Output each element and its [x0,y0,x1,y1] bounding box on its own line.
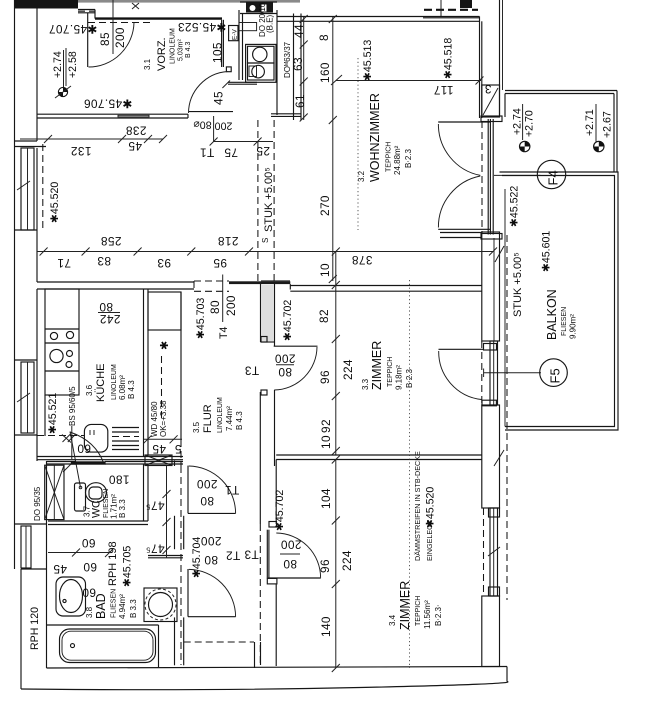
svg-text:3.5: 3.5 [192,421,201,433]
svg-text:3.1: 3.1 [143,58,152,70]
hall door 2 bottom radius [188,616,236,618]
left wall sill lines at vorz bottom [15,140,38,142]
dim 60 fridge [77,442,91,456]
dim row y=251.5 [37,251,493,253]
dim 95 [213,256,227,270]
dim 3 [484,82,491,96]
svg-text:80: 80 [278,365,292,379]
svg-text:75: 75 [224,146,238,160]
F5 window frame [490,341,498,405]
transverse wall black band [229,281,290,284]
svg-text:45: 45 [128,139,142,153]
svg-text:224: 224 [341,359,355,380]
svg-text:T2: T2 [226,549,241,563]
T1 label hall [225,483,240,497]
F5 leader [484,372,541,374]
svg-text:+2.74: +2.74 [512,108,524,135]
T3 tag 80 [278,365,292,379]
svg-text:200: 200 [201,534,222,548]
svg-text:DO 95/35: DO 95/35 [33,486,42,521]
svg-text:180: 180 [109,473,130,487]
top scan band [30,0,300,3]
svg-text:✱45.521: ✱45.521 [47,393,59,434]
vorz right wall upper [221,20,223,67]
svg-text:10: 10 [319,435,333,449]
toilet tank [75,483,86,511]
svg-text:RPH 120: RPH 120 [29,607,41,650]
T3 upper door leaf [274,345,318,347]
Z34 window frame [490,508,498,596]
svg-text:45: 45 [212,91,226,105]
dim 45 hatch [152,442,166,456]
svg-text:270: 270 [318,195,332,216]
T4 passage dashed lintel [194,280,229,282]
svg-text:B 4.3: B 4.3 [127,380,136,399]
svg-text:FLIESEN: FLIESEN [561,307,568,336]
dim 45 [128,139,142,153]
svg-text:61: 61 [293,94,307,108]
svg-text:✱: ✱ [159,341,171,350]
z33/z34 divider wall [276,454,482,456]
svg-text:224: 224 [340,550,354,571]
svg-text:T3: T3 [244,548,259,562]
svg-text:4.94m²: 4.94m² [118,594,127,619]
tick on W1 [17,181,30,190]
svg-text:3: 3 [484,82,491,96]
svg-text:VORZ.: VORZ. [156,37,168,71]
small box in shaft [239,23,257,31]
svg-text:160: 160 [318,62,332,83]
top wall to the right [277,16,480,18]
vorz bottom wall [37,113,188,115]
bad/wc left inner wall [46,461,48,668]
svg-text:WC: WC [91,500,103,518]
svg-text:B 4.3: B 4.3 [235,411,244,430]
vorz door leaf [189,111,233,113]
hall door 1 arc [189,466,236,513]
T1 dim line [214,141,273,143]
svg-text:71: 71 [57,256,71,270]
daemmstreifen dotted line wohnz [357,58,359,230]
svg-text:S: S [261,238,270,243]
svg-text:LINOLEUM: LINOLEUM [217,397,224,433]
svg-text:BS 95/60/5: BS 95/60/5 [68,386,77,426]
svg-text:24.88m²: 24.88m² [393,145,402,175]
svg-text:✱45.601: ✱45.601 [541,231,553,272]
shaft right wall [276,10,278,115]
svg-text:10: 10 [318,263,332,277]
tub surround [47,624,159,626]
chimney outline [240,1,277,3]
svg-text:93: 93 [157,256,171,270]
z34 door tag 200 [281,538,302,552]
svg-text:80: 80 [283,557,297,571]
vorz bottom wall niche box [118,115,149,117]
svg-text:+2.67: +2.67 [602,111,614,138]
stove-sink unit outer [246,44,276,82]
niche column between wc and hall [148,555,183,557]
survey point balcony 1 [520,141,530,151]
hall door 2 leaf [187,569,189,617]
outer wall left: outer line upper [14,0,16,569]
vorz door arc [189,72,228,114]
svg-text:3.4: 3.4 [388,614,397,626]
right wall pier bottom [482,596,500,667]
balcony door arc 2 [438,176,480,228]
wall stub hall bottom [254,642,256,668]
bathtub [60,629,156,663]
stove-sink unit bottom compartment [248,63,275,80]
svg-text:✱45.703: ✱45.703 [195,298,207,339]
svg-text:60: 60 [77,442,91,456]
dim 180 wc [109,473,130,487]
svg-text:105: 105 [211,42,225,63]
level 45.706 [84,97,133,111]
z34 door arc [276,533,320,578]
wohnzimmer west wall upper [293,14,295,121]
svg-text:T1: T1 [200,146,215,160]
dim 378 [352,253,373,267]
z34 door tag 80 [283,557,297,571]
svg-text:OK=+3.38: OK=+3.38 [159,400,168,437]
bottom-right wall end [506,667,508,682]
svg-text:LINOLEUM: LINOLEUM [170,28,177,64]
kitchen dashed line [37,435,84,437]
hall door 2 arc [189,569,236,616]
level 45.523 [178,20,227,34]
svg-text:✱45.706: ✱45.706 [84,97,133,111]
door tag 80 [193,119,212,131]
svg-text:80: 80 [204,553,218,567]
svg-text:9.90m²: 9.90m² [569,314,578,339]
T3 label lower [244,548,259,562]
svg-text:+2.71: +2.71 [584,109,596,136]
hall door2 tag 80 [204,553,218,567]
svg-text:3.8: 3.8 [85,606,94,618]
z34 door closed panel [266,530,268,579]
svg-text:STUK +5.00⁵: STUK +5.00⁵ [512,252,524,317]
E-V box [229,26,238,41]
svg-text:LINOLEUM: LINOLEUM [111,364,118,400]
vertical dim chain lower [335,460,337,669]
svg-text:WOHNZIMMER: WOHNZIMMER [368,93,382,182]
chimney black band [246,3,273,13]
bottom outer wall inner line [47,667,508,669]
svg-text:✱45.520: ✱45.520 [49,182,61,223]
outer line right top [499,0,501,90]
dim 75 [224,146,238,160]
dim 258 [101,234,122,248]
entry door arc [89,23,135,68]
dim 80/242 fraction [99,300,113,314]
T3 label upper [244,364,259,378]
daemmstreifen dotted line lower [409,280,411,668]
dim 132 [71,144,92,158]
vorz top wall inner line [95,17,222,19]
fridge dim line [71,426,73,459]
svg-text:63: 63 [291,57,305,71]
wohnz/z33 divider wall meets right wall [440,232,482,234]
hall door 1 bottom radius [188,512,236,514]
x-mark at entry closing point [132,3,139,9]
survey point symbol [55,86,71,98]
svg-text:11.56m²: 11.56m² [423,600,432,629]
dim 117 line [336,80,481,82]
svg-text:B 3.3: B 3.3 [118,499,127,518]
wc bottom wall [48,520,148,522]
svg-text:✱45.702: ✱45.702 [282,300,294,341]
transverse wall east part (wohnz/z33) [290,285,482,287]
corridor wall pair below T3 [259,392,261,524]
balcony door leaf 1 [438,121,490,123]
X-box niche [145,455,172,466]
svg-text:242: 242 [100,312,121,326]
F4 leader [494,174,541,176]
z34 west wall upper piece [275,460,277,525]
balcony door arc 1 [438,124,480,175]
entry lintel dashed [88,22,152,24]
svg-text:80⌀: 80⌀ [193,119,212,131]
svg-text:83: 83 [97,254,111,268]
T3 tag 200 [275,352,296,366]
svg-text:B 3.3: B 3.3 [129,599,138,618]
neighbor balcony divider [505,90,617,92]
dim 475 b [145,542,164,556]
svg-text:200: 200 [113,27,127,48]
label T1 [200,146,215,160]
F4 circle [537,160,565,188]
z33 window door leaf [439,348,484,350]
svg-text:+2.58: +2.58 [67,51,79,78]
svg-text:60: 60 [83,560,97,574]
small black block top middle [460,0,472,8]
dim 83 [97,254,111,268]
stove-sink unit top compartment [248,46,275,63]
svg-text:258: 258 [101,234,122,248]
wohnz right wall pier top [499,90,501,117]
svg-text:378: 378 [352,253,373,267]
svg-text:47⁵: 47⁵ [145,542,164,556]
svg-text:92: 92 [319,419,333,433]
dim 25 [256,144,270,158]
svg-text:9.18m²: 9.18m² [395,365,404,390]
dim 238 [126,124,147,138]
dim chain A (x=303.7) [303,17,305,121]
svg-text:200: 200 [275,352,296,366]
svg-text:TEPPICH: TEPPICH [415,596,422,626]
svg-text:B⋅2.3: B⋅2.3 [404,148,413,168]
dim chain B (x=332.8) [332,17,334,282]
right wall pier between balcony door and F5 window [482,232,500,341]
svg-text:KÜCHE: KÜCHE [95,363,107,402]
svg-text:85: 85 [98,32,112,46]
svg-text:60: 60 [82,536,96,550]
hatch dim line [144,438,182,440]
svg-text:80: 80 [200,494,214,508]
svg-text:5: 5 [174,442,181,456]
balcony door bottom hinge block [481,234,502,240]
window W1 in left wall [21,148,34,230]
svg-text:200: 200 [197,477,218,491]
svg-text:45: 45 [53,562,67,576]
svg-text:3.3: 3.3 [361,378,370,390]
dim 71 [57,256,71,270]
hall door1 tag 200 [197,477,218,491]
T2 label [226,549,241,563]
svg-text:132: 132 [71,144,92,158]
leader from top [440,0,442,16]
z34 door leaf [268,577,321,579]
tick on Z34 window [488,547,500,556]
T4 fraction line [222,275,224,323]
svg-text:E-V: E-V [232,29,239,41]
door tag 200 [215,120,233,132]
svg-text:✱45.707: ✱45.707 [49,22,98,36]
svg-text:FLIESEN: FLIESEN [111,589,118,618]
balcony door frame lines [487,119,489,235]
svg-text:5.03m²: 5.03m² [178,39,185,61]
dim 475 a [145,499,164,513]
level 45.707 (rot180) [49,22,98,36]
svg-text:7.44m²: 7.44m² [225,406,234,431]
dim line under vorz (y139) [20,138,163,140]
hall bottom dashed [184,641,254,643]
shelf unit lines [112,427,139,429]
STUK corridor dashed strip [257,120,259,281]
svg-text:238: 238 [126,124,147,138]
svg-text:✱45.513: ✱45.513 [362,40,374,81]
svg-text:✱45.520: ✱45.520 [425,487,437,528]
kitchen sink bowls [50,332,57,339]
svg-text:B 4.3: B 4.3 [185,42,192,58]
svg-text:B⋅2.3⋅: B⋅2.3⋅ [434,604,443,626]
transverse wall corner step [289,284,291,289]
svg-text:200: 200 [215,120,233,132]
z33 window door arc [439,351,482,400]
z34 west wall lower piece [275,584,277,666]
svg-text:RPH 198: RPH 198 [107,541,119,586]
bad dims 45/60 [48,552,111,554]
svg-text:45: 45 [152,442,166,456]
svg-text:STUK +5.00⁵: STUK +5.00⁵ [263,167,275,232]
svg-text:3.6: 3.6 [85,384,94,396]
svg-text:WD 45/80: WD 45/80 [150,401,159,437]
svg-text:117: 117 [433,83,453,97]
svg-text:82: 82 [317,309,331,323]
balcony door leaf 2 [438,228,490,230]
shaft X-box wc [45,465,64,519]
outer wall left: outer line lower [20,569,22,689]
entry threshold lower line [78,12,95,14]
svg-text:80: 80 [99,300,113,314]
kitchen stove burners [50,349,63,362]
vertical dim chain upper (x=335.8) [335,252,337,456]
svg-text:✱45.705: ✱45.705 [122,546,134,587]
T1 dim vertical leader [213,116,215,142]
balcony inner floor edge [504,189,506,427]
svg-text:TEPPICH: TEPPICH [387,357,394,387]
svg-text:140: 140 [319,616,333,637]
svg-text:8: 8 [317,34,331,41]
svg-text:(B.E): (B.E) [266,14,275,33]
svg-text:✱45.522: ✱45.522 [509,186,521,227]
svg-text:95: 95 [213,256,227,270]
dashed lintel top right [424,9,478,11]
F5 window sill blocks [484,344,497,351]
washing machine [144,588,177,622]
kitchen bottom wall [37,456,183,458]
svg-text:FLUR: FLUR [202,404,214,433]
plaster dashed line [42,144,44,231]
balcony door top hinge block [481,116,502,122]
kitchen counter outline [45,289,79,395]
z34 door lower jamb [267,578,277,584]
entry door leaf [87,13,89,67]
svg-text:DÄMMSTREIFEN IN STB-DECKE: DÄMMSTREIFEN IN STB-DECKE [413,451,422,561]
svg-text:✱45.702: ✱45.702 [274,490,286,531]
hall door1 tag 80 [200,494,214,508]
kitchen right wall [143,289,145,457]
STUK dashed line along right wall [506,235,508,600]
svg-text:44: 44 [292,24,306,38]
entry threshold hatch [78,10,95,12]
svg-text:F5: F5 [548,368,563,383]
svg-text:T4: T4 [218,327,230,339]
svg-text:F4: F4 [546,170,561,185]
F5 circle [540,359,568,387]
svg-text:6.08m²: 6.08m² [118,375,127,400]
hall west wall pieces [174,461,176,467]
svg-text:ZIMMER: ZIMMER [370,341,384,390]
svg-text:T1: T1 [225,483,240,497]
fridge [84,424,107,452]
entry threshold upper line [78,9,95,11]
toilet bowl [86,483,107,503]
svg-text:+2.74: +2.74 [52,51,64,78]
svg-text:104: 104 [319,488,333,509]
svg-text:200: 200 [281,538,302,552]
z34 door upper jamb [269,522,277,528]
top-left black wall block [14,0,78,9]
dim 5 hatch [174,442,181,456]
balcony slab outer [500,172,619,430]
window W2 in left wall [15,359,38,361]
kitchen door arc to wc hall [70,432,81,488]
rough window band top right [423,17,479,19]
svg-text:BAD: BAD [94,593,108,619]
svg-text:80: 80 [208,300,222,314]
dim 218 label [218,234,239,248]
hall door 1 leaf [187,466,189,514]
svg-text:✱45.523: ✱45.523 [178,20,227,34]
washbasin [56,577,86,616]
right wall pier below F5 [482,405,500,508]
flur west wall line [180,292,182,440]
sill under unit [228,81,257,83]
closet top on flur west wall [148,292,181,330]
T3 upper door arc [274,347,317,390]
svg-text:200: 200 [224,295,238,316]
hall door2 tag 200 [201,534,222,548]
475 dim column [166,466,168,558]
bottom outer wall outer line [21,682,508,690]
dim 117 [433,83,453,97]
survey point balcony 2 [594,141,604,151]
wc top wall [47,461,77,463]
svg-text:96: 96 [318,370,332,384]
svg-text:47⁵: 47⁵ [145,499,164,513]
wc right wall [143,464,145,521]
